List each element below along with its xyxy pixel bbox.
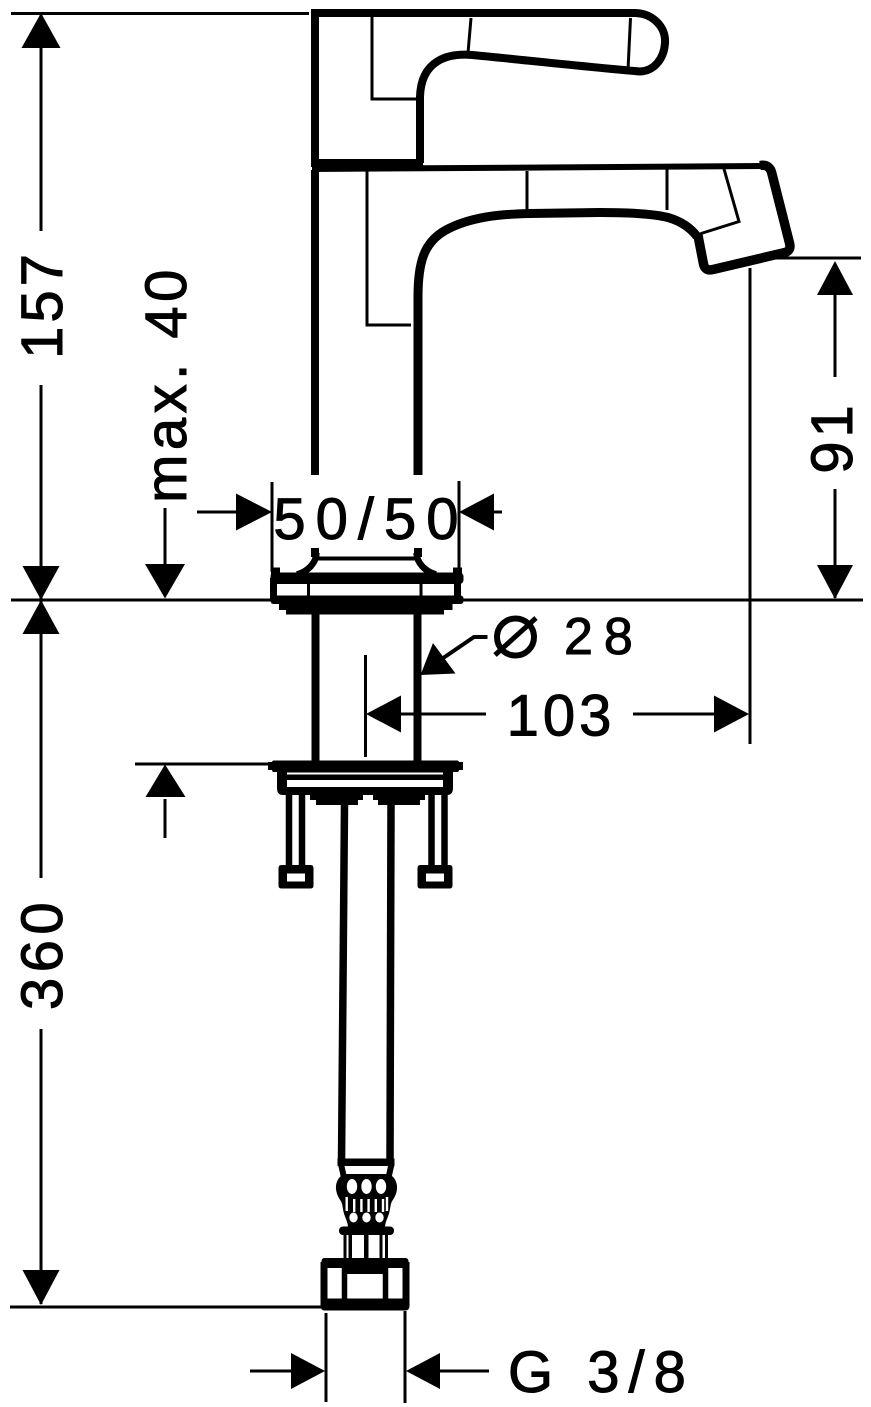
body left edge xyxy=(311,170,319,475)
dimension 360 line lower segment xyxy=(40,1029,43,1304)
supply hose right xyxy=(390,805,391,1162)
dimension G3/8 right tail xyxy=(440,1370,489,1373)
handle base bottom line xyxy=(311,159,423,167)
shank left edge xyxy=(312,613,320,761)
dimension 360 arrow down xyxy=(23,1270,60,1305)
union nut top bar xyxy=(322,1258,409,1268)
union nut right wall xyxy=(403,1262,410,1305)
knurl bottom arch mid xyxy=(362,1213,370,1223)
dimension 360 arrow up xyxy=(23,600,60,634)
mounting plate third bar xyxy=(287,787,443,795)
dimension G3/8 left tail xyxy=(250,1370,292,1373)
dimension 103 left arrow xyxy=(366,696,401,733)
diameter 28 symbol circle xyxy=(497,619,534,656)
extension line mounting plate (max 40 ref) xyxy=(135,763,270,766)
countertop reference line xyxy=(11,599,863,602)
diameter 28 leader arrow xyxy=(421,643,456,675)
dimension max 40 lower stem xyxy=(164,799,167,838)
dimension 103 right arrow xyxy=(714,696,749,733)
escutcheon bottom plate bar xyxy=(271,596,464,605)
mounting plate top bar xyxy=(272,761,459,773)
mounting plate second bar xyxy=(277,772,453,780)
handle thin split line mid xyxy=(468,18,471,53)
dimension max 40 upper stem xyxy=(164,508,167,566)
dimension 103 left segment xyxy=(400,713,486,716)
dimension max 40 arrow up xyxy=(146,765,186,798)
svg-text:28: 28 xyxy=(564,608,644,666)
extension line spout outlet horizontal (91 ref) xyxy=(768,257,861,260)
knurl slot 7 xyxy=(386,1197,388,1211)
escutcheon top bar left nub xyxy=(271,568,280,575)
dimension 50/50 left extension line xyxy=(271,482,274,572)
handle lever outline xyxy=(315,13,665,167)
dimension 50/50 right tail xyxy=(494,511,502,514)
knurl slot 3 xyxy=(360,1199,362,1212)
knurl slot 1 xyxy=(346,1197,348,1211)
svg-text:360: 360 xyxy=(10,897,75,1010)
svg-text:max. 40: max. 40 xyxy=(134,265,199,503)
diameter 28 symbol slash xyxy=(495,618,536,655)
dimension G3/8 left extension line xyxy=(325,1313,328,1402)
rod nut right xyxy=(418,865,453,889)
escutcheon top bar right nub xyxy=(453,568,462,575)
escutcheon right flare xyxy=(417,553,437,575)
escutcheon step bar 1 xyxy=(279,603,453,610)
dimension 91 arrow down xyxy=(817,565,853,599)
extension line top of handle (157 ref) xyxy=(11,12,309,15)
escutcheon inner thin line right xyxy=(420,584,423,596)
fitting neck bar 1 xyxy=(344,1234,347,1261)
threaded rod right outer xyxy=(441,794,448,866)
diameter 28 leader line xyxy=(441,637,488,660)
extension line bottom of tailpiece (360 ref) xyxy=(10,1306,324,1309)
dimension 157 arrow down xyxy=(23,566,60,600)
spout underside curve xyxy=(418,213,697,476)
mounting plate left end cap xyxy=(277,772,287,795)
fitting neck bar 5 xyxy=(385,1234,388,1261)
hose taper right xyxy=(388,1164,392,1180)
dimension 50/50 left arrow xyxy=(236,494,272,531)
mounting plate left nub xyxy=(268,762,276,770)
escutcheon plateau line xyxy=(317,557,415,561)
spout thin section line right xyxy=(666,169,669,210)
svg-text:157: 157 xyxy=(10,250,75,359)
union nut bottom bar xyxy=(321,1299,410,1311)
escutcheon right side xyxy=(454,578,461,600)
svg-text:50/50: 50/50 xyxy=(273,487,468,552)
fitting neck bar 4 xyxy=(380,1234,383,1261)
body left edge stub above flange xyxy=(311,548,319,557)
dimension 91 arrow up xyxy=(817,261,853,295)
union nut facet right xyxy=(383,1264,389,1303)
knurl slot 6 xyxy=(382,1199,384,1212)
union nut inner shading xyxy=(345,1265,386,1274)
hose lug left xyxy=(310,795,363,805)
fitting neck bar 2 xyxy=(349,1234,353,1261)
dimension 91 line upper segment xyxy=(834,294,837,377)
dimension 157 line upper segment xyxy=(40,15,43,231)
union nut left wall xyxy=(321,1262,328,1305)
dimension G3/8 left arrow xyxy=(291,1353,325,1389)
handle inner thin contour xyxy=(372,17,416,99)
fitting ring bar xyxy=(339,1227,394,1236)
dimension 103 right segment xyxy=(633,713,714,716)
fitting neck bar 3 xyxy=(364,1234,369,1261)
knurl top arch left xyxy=(347,1179,357,1194)
knurl slot 4 xyxy=(367,1199,369,1212)
mounting plate right nub xyxy=(455,762,463,770)
dimension max 40 arrow down xyxy=(145,564,185,599)
svg-text:G 3/8: G 3/8 xyxy=(508,1340,695,1405)
knurl bottom arch right xyxy=(375,1213,383,1223)
hose crimp bar xyxy=(338,1159,395,1167)
shank center line xyxy=(364,655,367,757)
spout outlet piece outline xyxy=(698,165,790,270)
spout inner thin contour xyxy=(367,171,411,325)
escutcheon inner thin line left xyxy=(307,584,310,596)
union nut facet left xyxy=(342,1264,348,1303)
knurl slot 2 xyxy=(353,1199,355,1212)
dimension 50/50 left tail xyxy=(197,511,237,514)
svg-text:91: 91 xyxy=(800,401,865,474)
knurl bottom arch left xyxy=(349,1213,357,1223)
body right edge stub above flange xyxy=(414,548,422,557)
hose lug right xyxy=(373,795,425,805)
threaded rod left inner xyxy=(299,794,306,866)
handle thin split line end xyxy=(628,18,631,70)
spout outlet inner thin line xyxy=(701,169,739,234)
knurl top arch right xyxy=(376,1179,386,1194)
dimension 157 arrow up xyxy=(22,13,61,48)
escutcheon left flare xyxy=(297,553,317,575)
escutcheon left side xyxy=(270,578,277,600)
dimension G3/8 right extension line xyxy=(404,1311,407,1403)
spout thin section line mid xyxy=(526,171,529,216)
mounting plate right end cap xyxy=(443,772,453,795)
supply hose left xyxy=(342,805,345,1162)
threaded rod left outer xyxy=(286,794,293,866)
dimension 50/50 right extension line xyxy=(458,481,461,578)
shank right edge xyxy=(414,613,422,761)
knurl slot 5 xyxy=(375,1199,377,1212)
spout top edge line xyxy=(312,166,767,169)
escutcheon top plate bar xyxy=(271,573,464,585)
mounting plate white split line xyxy=(285,773,445,775)
dimension G3/8 right arrow xyxy=(406,1353,440,1389)
knurled collar body xyxy=(336,1174,397,1227)
hose taper left xyxy=(341,1164,345,1180)
dimension 157 line lower segment xyxy=(40,385,43,599)
dimension 50/50 right arrow xyxy=(459,494,494,531)
knurl top arch mid xyxy=(361,1179,371,1194)
extension line spout outlet vertical (103 ref) xyxy=(749,268,752,744)
threaded rod right inner xyxy=(428,794,435,866)
escutcheon step bar 2 xyxy=(286,609,444,615)
dimension 360 line upper segment xyxy=(40,601,43,878)
rod nut left xyxy=(279,865,314,889)
svg-text:103: 103 xyxy=(507,684,616,749)
dimension 91 line lower segment xyxy=(834,489,837,598)
